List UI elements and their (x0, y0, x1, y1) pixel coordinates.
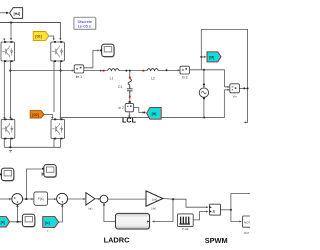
wire reference input (0, 198, 11, 200)
node DC- (9, 146, 11, 148)
phase wire Im1 to L1 (84, 70, 108, 72)
wire carrier to comparator (193, 212, 207, 220)
wire right leg inner (60, 61, 62, 118)
port mark scope Sc3 input2 (42, 173, 44, 175)
wire error to scope Sc3 (26, 169, 41, 199)
svg-text:L2: L2 (151, 77, 155, 81)
From tag C (cyan) (43, 217, 59, 228)
port mark red C1 bottom (129, 96, 131, 98)
wire Im2 to rail (128, 112, 130, 117)
arrow into scope Sc2 (0, 173, 2, 175)
Goto tag G1 (yellow) (33, 32, 49, 41)
capacitor branch wire (129, 71, 131, 78)
From tag ref (cyan) (0, 217, 10, 228)
controller block PR (34, 192, 48, 205)
inductor L1 (108, 69, 119, 71)
svg-text:ka1: ka1 (89, 206, 94, 210)
comparator S (210, 205, 221, 216)
svg-text:[R]: [R] (1, 221, 5, 225)
current measurement Im1 (74, 65, 84, 73)
node rail / source (203, 117, 205, 119)
svg-text:Vm: Vm (233, 94, 238, 98)
wire into Vm+ (224, 86, 229, 88)
arrow into S3 bottom (103, 203, 105, 205)
phase wire to Im1 (10, 70, 73, 72)
node ref branch (17, 221, 19, 223)
node rail / Im2 (128, 117, 130, 119)
current measurement Im2 (125, 103, 133, 111)
wire L2 to Vm (158, 70, 179, 72)
wire u feedback to LADRC (153, 199, 173, 221)
svg-text:P(s): P(s) (38, 197, 44, 201)
port mark red L2 left (142, 70, 144, 72)
ground mark (9, 150, 12, 152)
wire into Goto H4 (0, 12, 9, 14)
wire comparator output (220, 209, 231, 211)
inductor L2 (147, 69, 158, 71)
node PWM branch (230, 209, 232, 211)
scope Sc4 (22, 214, 35, 227)
wire Vm output (239, 87, 247, 89)
wire into Vm- (224, 89, 229, 91)
scope Sc2 (1, 168, 14, 181)
sum S3 (100, 195, 108, 203)
arrow into S1 bottom (16, 205, 18, 207)
wire into tag M1 (201, 56, 205, 58)
wire Im2 signal to tag M2 (134, 108, 144, 113)
svg-text:SPWM: SPWM (205, 236, 228, 245)
svg-text:[M]: [M] (209, 56, 214, 60)
wire L1 to L2 (119, 70, 147, 72)
svg-text:[ic]: [ic] (45, 221, 50, 225)
port mark source bottom (203, 98, 205, 100)
arrow into S2 bottom (61, 204, 63, 206)
wire source top (203, 70, 205, 84)
powergui block (75, 18, 97, 30)
wire C1 to Im2 (129, 98, 131, 103)
node at tag M2 (144, 112, 146, 114)
svg-text:1/b0: 1/b0 (152, 197, 158, 201)
wire rail to Q1 collector (10, 23, 12, 40)
node junction DC+ (10, 21, 12, 23)
wire C to S2 (59, 206, 63, 222)
port mark red L1 left (103, 70, 105, 72)
arrow into Q2 collector (59, 38, 61, 40)
wire S2 to gain Ka (68, 198, 85, 200)
IGBT Q4 (51, 119, 65, 140)
node phase B (60, 69, 62, 71)
svg-text:LCL: LCL (122, 115, 137, 124)
bottom rail wire (61, 90, 225, 118)
voltage measurement Vm (230, 84, 240, 93)
port chevron LADRC right (147, 220, 149, 222)
port mark red C1 top (129, 77, 131, 79)
node at source top (203, 69, 205, 71)
wire Im1 signal to scope (84, 50, 99, 67)
capacitor C1 plates (127, 89, 133, 96)
node phase A (9, 69, 11, 71)
svg-text:1e-05 s.: 1e-05 s. (78, 24, 92, 29)
carrier generator block (177, 214, 193, 227)
DC- rail wire (4, 139, 60, 148)
svg-text:[G2]: [G2] (32, 113, 38, 117)
From tag M2 (cyan) (147, 107, 162, 119)
wire Ka to S3 (95, 198, 100, 200)
wire PR to S2 (48, 198, 56, 200)
svg-text:Im 1: Im 1 (76, 75, 83, 79)
logic NOT block (243, 216, 253, 227)
node tag M1 branch (200, 56, 202, 58)
arrow into scope Sc1 (100, 50, 102, 52)
gain 1/b0 (146, 191, 163, 206)
measurement block In3 (180, 66, 189, 74)
svg-text:NOT: NOT (244, 221, 250, 225)
port mark source top (203, 84, 205, 86)
scope Sc1 (102, 44, 115, 57)
svg-text:C1: C1 (118, 85, 122, 89)
svg-text:In 2: In 2 (118, 106, 124, 110)
svg-text:[G1]: [G1] (35, 35, 41, 39)
wire stub Q1 gate (3, 39, 5, 40)
IGBT Q1 (1, 41, 15, 62)
IGBT Q2 (51, 41, 65, 62)
port chevron LADRC left (116, 220, 118, 222)
port arrows comparator (209, 206, 212, 213)
node after Im1 (100, 70, 102, 72)
svg-text:L1: L1 (110, 77, 114, 81)
svg-text:P 10k: P 10k (182, 227, 189, 231)
gain Ka (86, 193, 95, 206)
wire G1 to Q2 gate (49, 36, 54, 40)
wire S1 to PR (23, 198, 33, 200)
sum S2 (57, 193, 68, 204)
svg-text:In 3: In 3 (182, 76, 188, 80)
svg-text:LADRC: LADRC (104, 236, 131, 245)
wire source to rail (203, 99, 205, 118)
wire PWM up and off right (231, 194, 250, 210)
sum S1 (12, 194, 23, 205)
node error branch (25, 198, 27, 200)
LADRC block (ESO) (116, 214, 150, 230)
Goto tag M1 (cyan) (207, 52, 221, 62)
wire PWM to NOT (231, 210, 241, 222)
port mark Im2 top (129, 101, 131, 103)
svg-text:NOT: NOT (244, 231, 250, 235)
node C branch (125, 70, 127, 72)
node u branch (172, 198, 174, 200)
IGBT Q3 (1, 119, 15, 140)
node junction on H4 wire (6, 12, 8, 14)
wire right leg outer (53, 61, 55, 112)
wire ref to S1 and scope (10, 206, 22, 222)
Goto tag H4 (10, 8, 23, 19)
svg-text:[M]: [M] (152, 112, 157, 116)
arrow into scope Sc3 input1 (42, 168, 44, 170)
node after L2 (166, 69, 168, 71)
wire u to comparator (163, 199, 208, 208)
wire S3 to gain b0 (108, 198, 146, 200)
wire G2 to Q4 gate (44, 114, 52, 118)
AC source Vg (199, 88, 208, 97)
Goto tag G2 (orange) (30, 111, 44, 118)
series coil of C1 branch (128, 79, 131, 89)
wire left leg inner (9, 61, 11, 118)
DC+ rail wire (0, 23, 60, 40)
wire up to top loop (201, 29, 247, 122)
svg-text:1/b0: 1/b0 (151, 207, 157, 211)
wire z1 feedback up to S3 (104, 205, 116, 221)
wire left leg outer (3, 61, 5, 118)
node Vm output (243, 87, 245, 89)
svg-text:[H4]: [H4] (14, 12, 21, 16)
scope Sc3 (44, 165, 57, 178)
node wire to grid branch (189, 70, 224, 87)
